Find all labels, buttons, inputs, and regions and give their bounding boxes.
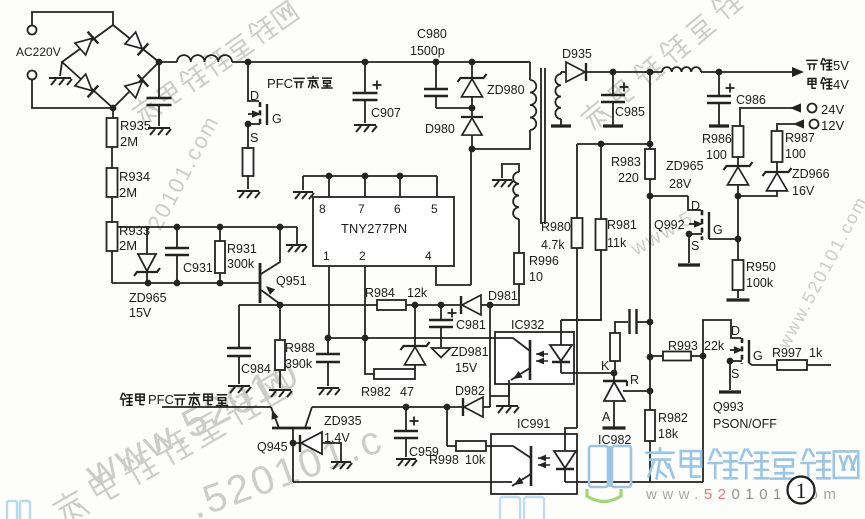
capacitor C985 — [612, 72, 614, 94]
svg-text:AC220V: AC220V — [16, 45, 61, 59]
wire — [576, 248, 578, 428]
wire top bus — [303, 175, 437, 177]
inductor L1 — [177, 55, 232, 62]
svg-text:1: 1 — [796, 478, 807, 503]
wire — [560, 72, 562, 74]
svg-text:R996: R996 — [529, 254, 559, 268]
wire 12V — [777, 124, 804, 131]
wire HV rail — [248, 61, 528, 63]
zener ZD965 28V — [737, 157, 739, 166]
resistor R934 — [107, 168, 118, 197]
svg-text:PFC: PFC — [148, 392, 174, 407]
node — [469, 105, 476, 112]
resistor R987 — [772, 131, 783, 162]
svg-text:R997: R997 — [772, 346, 802, 360]
diode D981 — [460, 296, 462, 314]
svg-text:R980: R980 — [541, 220, 571, 234]
svg-text:R: R — [630, 373, 639, 387]
node — [735, 193, 742, 200]
diode bridge D2 — [125, 32, 148, 55]
svg-text:R993: R993 — [668, 339, 698, 353]
pin 4 wire — [436, 266, 471, 285]
photon arrows — [538, 455, 546, 462]
svg-text:100: 100 — [785, 147, 806, 161]
svg-text:28V: 28V — [669, 177, 692, 191]
node — [598, 141, 605, 148]
node — [145, 280, 152, 287]
resistor R950 — [733, 260, 744, 290]
wire 24V — [740, 108, 800, 126]
capacitor C907 — [364, 62, 366, 92]
wire tap — [117, 226, 297, 228]
resistor R997 — [777, 360, 807, 370]
svg-text:12k: 12k — [407, 286, 428, 300]
resistor R996 — [514, 253, 524, 284]
svg-text:100: 100 — [706, 148, 727, 162]
diode D980 — [471, 108, 473, 117]
wire — [737, 196, 739, 239]
wire — [561, 250, 601, 320]
wire — [483, 406, 490, 408]
ground — [492, 180, 513, 187]
wire — [481, 304, 490, 306]
svg-text:R998: R998 — [429, 453, 459, 467]
svg-text:D: D — [731, 324, 740, 338]
pin 2 wire — [364, 266, 366, 338]
svg-text:C907: C907 — [371, 106, 401, 120]
node — [735, 236, 742, 243]
terminal 12V — [810, 120, 819, 129]
node — [647, 69, 654, 76]
wire — [737, 239, 739, 260]
wire — [518, 219, 520, 253]
capacitor CX — [158, 62, 160, 97]
svg-text:100k: 100k — [746, 276, 774, 290]
svg-text:2: 2 — [359, 249, 366, 263]
svg-text:S: S — [731, 367, 739, 381]
ground — [496, 406, 519, 413]
ground — [432, 348, 451, 358]
svg-text:300k: 300k — [227, 257, 255, 271]
svg-text:R983: R983 — [611, 155, 641, 169]
wire — [490, 384, 509, 396]
transistor PFC MOSFET — [248, 62, 259, 101]
terminal AC N — [28, 71, 37, 80]
svg-text:PFC: PFC — [267, 76, 293, 91]
node — [647, 193, 654, 200]
wire — [292, 428, 294, 482]
svg-text:8: 8 — [319, 202, 326, 216]
wire — [32, 80, 113, 109]
wire gate — [749, 363, 777, 365]
zener ZD935 — [293, 442, 299, 444]
ground — [678, 263, 700, 266]
svg-text:5V: 5V — [833, 58, 849, 73]
optocoupler IC932 — [495, 332, 574, 384]
transistor Q945 — [272, 427, 311, 430]
ground — [228, 386, 251, 393]
svg-text:C980: C980 — [417, 27, 447, 41]
capacitor C983 — [628, 309, 630, 334]
pin 5 wire — [436, 176, 438, 197]
wire — [32, 12, 113, 26]
svg-text:1500p: 1500p — [410, 44, 445, 58]
svg-text:www.520101.com: www.520101.com — [773, 192, 865, 352]
pin 8 wire — [328, 176, 330, 197]
svg-text:S: S — [250, 131, 258, 145]
svg-text:2M: 2M — [119, 185, 137, 200]
capacitor C931 — [176, 227, 178, 247]
svg-text:TNY277PN: TNY277PN — [341, 221, 407, 236]
label 5V output — [807, 60, 817, 69]
transformer core — [540, 68, 542, 224]
node — [290, 440, 297, 447]
svg-text:C985: C985 — [615, 105, 645, 119]
pin 1 wire — [328, 266, 330, 338]
ground — [237, 191, 260, 198]
svg-text:390k: 390k — [285, 357, 313, 371]
svg-text:22k: 22k — [704, 339, 725, 353]
svg-text:18k: 18k — [658, 427, 679, 441]
node — [362, 59, 369, 66]
svg-text:D980: D980 — [425, 122, 455, 136]
wire — [649, 72, 651, 144]
bridge rectifier frame — [62, 25, 159, 108]
svg-text:5: 5 — [431, 202, 438, 216]
svg-text:D982: D982 — [455, 384, 485, 398]
capacitor C981 — [440, 305, 442, 319]
node — [217, 280, 224, 287]
resistor Rs — [243, 148, 254, 176]
svg-text:15V: 15V — [455, 361, 478, 375]
node — [277, 302, 284, 309]
wire — [807, 364, 831, 366]
svg-text:4: 4 — [425, 249, 432, 263]
transformer secondary — [555, 74, 561, 119]
optocoupler IC991 — [491, 434, 577, 494]
svg-text:C984: C984 — [241, 362, 271, 376]
ground — [49, 78, 72, 85]
pin 7 wire — [364, 176, 366, 197]
svg-text:ZD980: ZD980 — [487, 83, 525, 97]
wire — [112, 108, 114, 118]
wire collector net — [312, 406, 463, 408]
node — [277, 224, 284, 231]
ground — [603, 124, 623, 127]
node R node — [647, 388, 654, 395]
node — [647, 141, 654, 148]
ground — [727, 298, 750, 301]
wire supply out — [162, 406, 271, 408]
node — [700, 353, 707, 360]
node — [325, 335, 332, 342]
diode bridge D4 — [125, 75, 148, 98]
resistor R983 — [645, 149, 655, 179]
transformer primary — [529, 62, 531, 80]
ground — [148, 128, 171, 135]
svg-text:R986: R986 — [702, 132, 732, 146]
node — [716, 69, 723, 76]
resistor R931 — [219, 227, 221, 241]
resistor R984b — [610, 333, 620, 361]
svg-text:10: 10 — [529, 270, 543, 284]
wire — [472, 130, 530, 149]
wire — [232, 61, 248, 63]
wire — [247, 124, 249, 148]
svg-text:D935: D935 — [562, 47, 592, 61]
ground — [293, 192, 314, 199]
wire — [436, 107, 472, 109]
wire — [637, 321, 651, 323]
svg-text:1: 1 — [323, 249, 330, 263]
resistor R998 — [456, 441, 486, 451]
svg-text:G: G — [713, 223, 723, 237]
svg-text:R981: R981 — [607, 218, 637, 232]
svg-text:R934: R934 — [119, 169, 150, 184]
wire — [702, 356, 704, 482]
svg-text:2M: 2M — [120, 134, 138, 149]
wire base line — [112, 282, 259, 284]
svg-text:R935: R935 — [120, 118, 151, 133]
wire — [365, 338, 374, 374]
svg-text:S: S — [691, 239, 699, 253]
ground — [331, 462, 352, 469]
shunt reg IC982 — [613, 373, 615, 381]
resistor R982 18k — [645, 410, 655, 441]
node — [362, 173, 369, 180]
svg-text:4.7k: 4.7k — [541, 238, 565, 252]
svg-text:R931: R931 — [227, 242, 257, 256]
svg-text:R987: R987 — [785, 131, 815, 145]
svg-text:R982: R982 — [361, 385, 391, 399]
zener ZD981 — [414, 305, 416, 346]
svg-text:G: G — [272, 112, 282, 126]
resistor R933 — [107, 222, 118, 251]
svg-text:D981: D981 — [488, 289, 518, 303]
node — [438, 302, 445, 309]
svg-text:IC991: IC991 — [517, 417, 550, 431]
node — [245, 121, 252, 128]
node — [174, 280, 181, 287]
LED IC932 — [560, 320, 562, 345]
transistor Q951 — [259, 263, 262, 303]
node bridge+ — [156, 59, 163, 66]
wire — [296, 227, 298, 244]
svg-text:ZD966: ZD966 — [792, 167, 830, 181]
wire bottom rail — [293, 481, 512, 483]
terminal AC L — [28, 26, 37, 35]
ground — [317, 388, 340, 395]
svg-text:Q992: Q992 — [654, 218, 685, 232]
capacitor C980 — [435, 62, 437, 88]
diode D935 — [566, 62, 585, 82]
ground — [354, 125, 377, 132]
wire bias gnd line — [489, 305, 491, 407]
svg-text:R982: R982 — [658, 411, 688, 425]
capacitor C982 — [327, 338, 329, 353]
label supply PFC — [120, 393, 132, 405]
svg-text:1.4V: 1.4V — [324, 431, 350, 445]
svg-text:R984: R984 — [365, 286, 395, 300]
svg-text:R988: R988 — [285, 341, 315, 355]
terminal 24V — [808, 104, 817, 113]
diode bridge D3 — [75, 74, 98, 97]
node bridge- — [110, 105, 117, 112]
node — [174, 224, 181, 231]
svg-text:10k: 10k — [465, 453, 486, 467]
resistor R988 — [279, 305, 281, 340]
node — [217, 224, 224, 231]
wire — [490, 284, 519, 305]
node — [647, 319, 654, 326]
svg-text:Q993: Q993 — [713, 400, 744, 414]
wire — [446, 407, 448, 446]
svg-text:G: G — [753, 349, 763, 363]
wire — [60, 62, 62, 76]
wire — [577, 143, 650, 145]
arrow output — [792, 67, 804, 77]
resistor R935 — [107, 118, 118, 147]
wire — [737, 290, 739, 298]
svg-text:Q945: Q945 — [257, 440, 288, 454]
resistor R980 — [576, 144, 578, 218]
svg-text:6: 6 — [394, 202, 401, 216]
wire LED feed — [576, 427, 578, 429]
resistor R986 — [733, 126, 744, 157]
svg-text:220: 220 — [618, 171, 639, 185]
node — [397, 173, 404, 180]
zener ZD965 15V — [146, 227, 148, 254]
svg-text:24V: 24V — [821, 102, 844, 117]
decor logo book — [589, 446, 631, 487]
node — [647, 354, 654, 361]
node — [444, 404, 451, 411]
wire — [247, 176, 249, 189]
decor partial logo — [500, 497, 544, 519]
wire — [111, 251, 113, 283]
svg-text:Q951: Q951 — [276, 274, 307, 288]
wire — [615, 322, 628, 333]
ground — [286, 245, 307, 252]
wire — [302, 176, 304, 190]
node — [362, 335, 369, 342]
svg-text:C986: C986 — [736, 93, 766, 107]
ground — [551, 124, 571, 127]
svg-text:C981: C981 — [456, 318, 486, 332]
ground — [719, 390, 741, 393]
svg-text:R933: R933 — [119, 223, 150, 238]
svg-text:R950: R950 — [746, 260, 776, 274]
svg-text:ZD981: ZD981 — [451, 345, 489, 359]
svg-text:IC932: IC932 — [511, 318, 544, 332]
wire 28V column — [649, 196, 651, 410]
capacitor C984 — [238, 305, 240, 347]
wire R line — [623, 390, 650, 392]
svg-text:D: D — [250, 89, 259, 103]
node K — [611, 370, 618, 377]
resistor R993 — [663, 352, 691, 361]
transformer aux winding — [502, 164, 519, 178]
wire K line — [561, 372, 614, 374]
IC U1 TNY277PN — [313, 197, 454, 266]
transistor Q992 MOSFET — [688, 196, 701, 210]
ground — [269, 390, 292, 397]
node — [469, 146, 476, 153]
wire gate Q992 — [709, 238, 738, 240]
wire LED anode — [561, 319, 601, 321]
svg-text:ZD965: ZD965 — [666, 159, 704, 173]
svg-text:ZD965: ZD965 — [129, 291, 167, 305]
decor circled 1 — [788, 477, 815, 504]
zener ZD966 — [776, 162, 778, 172]
node — [326, 173, 333, 180]
svg-text:16V: 16V — [792, 184, 815, 198]
svg-text:1k: 1k — [809, 346, 823, 360]
wire — [701, 71, 792, 73]
svg-text:4V: 4V — [833, 77, 849, 92]
node — [412, 302, 419, 309]
svg-text:7: 7 — [358, 202, 365, 216]
svg-text:C931: C931 — [183, 261, 213, 275]
decor logo text — [646, 448, 673, 479]
svg-text:11k: 11k — [607, 236, 627, 250]
wire — [111, 147, 113, 168]
wire drain — [470, 149, 472, 285]
node — [610, 69, 617, 76]
svg-text:A: A — [602, 410, 611, 424]
svg-text:PSON/OFF: PSON/OFF — [713, 417, 777, 431]
diode D982 — [462, 398, 464, 416]
wire — [111, 197, 113, 222]
wire — [406, 304, 461, 306]
svg-text:K: K — [601, 359, 610, 373]
capacitor C959 — [405, 407, 407, 430]
LED IC991 — [565, 428, 577, 451]
wire — [649, 441, 651, 482]
svg-text:47: 47 — [400, 385, 414, 399]
resistor R981 — [600, 144, 602, 219]
transistor Q993 MOSFET — [703, 320, 741, 356]
node — [433, 59, 440, 66]
photon arrows — [536, 351, 544, 358]
svg-text:2M: 2M — [119, 238, 137, 253]
wire LED cathode rail — [565, 481, 703, 483]
pin 6 wire — [399, 176, 401, 197]
wire — [587, 71, 662, 73]
svg-text:D: D — [691, 199, 700, 213]
resistor R982 47 — [374, 369, 415, 379]
svg-text:15V: 15V — [129, 306, 152, 320]
wire 28V to Q992 — [650, 195, 688, 197]
zener ZD980 — [471, 62, 473, 78]
wire — [159, 61, 177, 63]
capacitor C986 — [718, 72, 720, 95]
node — [245, 59, 252, 66]
ground — [396, 459, 417, 466]
wire emitter line — [239, 304, 377, 306]
ground — [709, 124, 729, 127]
node — [469, 59, 476, 66]
inductor L2 — [662, 67, 701, 72]
node — [487, 302, 494, 309]
wire feedback — [328, 337, 495, 339]
svg-text:12V: 12V — [821, 118, 844, 133]
svg-text:ZD935: ZD935 — [324, 414, 362, 428]
diode bridge D1 — [75, 32, 98, 55]
node — [403, 404, 410, 411]
resistor R984 — [377, 300, 406, 310]
